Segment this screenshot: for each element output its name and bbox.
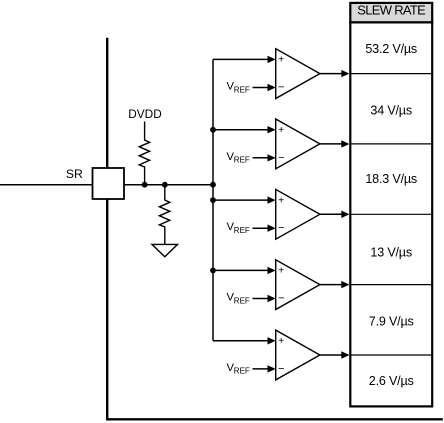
svg-text:REF: REF [234, 85, 250, 94]
wire: bus to + input of comparator U2 [213, 129, 269, 131]
svg-text:18.3 V/µs: 18.3 V/µs [365, 172, 417, 186]
table header SLEW RATE [350, 3, 432, 22]
wire: thick vertical line through SR pin [106, 38, 108, 421]
svg-text:−: − [278, 82, 284, 94]
op-amp comparator U3 [276, 189, 320, 239]
wire: bus to + input of comparator U1 [213, 58, 269, 60]
op-amp comparator U2 [276, 119, 320, 169]
svg-text:+: + [278, 336, 284, 347]
svg-text:REF: REF [234, 296, 250, 305]
ground [152, 244, 178, 256]
svg-text:−: − [278, 152, 284, 164]
table divider at slew threshold 3 [350, 213, 432, 215]
wire: comparator U2 output to table [320, 143, 343, 145]
svg-text:−: − [278, 363, 284, 375]
junction dot: bus branch to comparator U4 [210, 268, 216, 274]
wire: bus to + input of comparator U5 [213, 340, 269, 342]
svg-text:7.9 V/µs: 7.9 V/µs [369, 315, 414, 329]
wire: VREF to - input of comparator U5 [253, 368, 269, 370]
svg-text:−: − [278, 222, 284, 234]
wire: SR box to comparator bus [124, 184, 214, 186]
junction dot: R2 / SR wire [162, 182, 168, 188]
svg-text:REF: REF [234, 226, 250, 235]
wire: comparator U5 output to table [320, 354, 343, 356]
wire: SR input from left edge [0, 184, 93, 186]
wire: VREF to - input of comparator U1 [253, 87, 269, 89]
svg-text:+: + [278, 266, 284, 277]
svg-text:34 V/µs: 34 V/µs [370, 104, 412, 118]
svg-text:53.2 V/µs: 53.2 V/µs [365, 42, 417, 56]
svg-text:−: − [278, 293, 284, 305]
resistor R1 (from DVDD) [139, 122, 149, 185]
wire: comparator U3 output to table [320, 213, 343, 215]
table divider at slew threshold 5 [350, 354, 432, 356]
svg-text:+: + [278, 55, 284, 66]
wire: VREF to - input of comparator U4 [253, 298, 269, 300]
wire: vertical bus feeding comparator + inputs [212, 59, 214, 340]
wire: comparator U1 output to table [320, 73, 343, 75]
wire: bus to + input of comparator U3 [213, 199, 269, 201]
svg-text:SLEW RATE: SLEW RATE [357, 2, 426, 17]
table divider at slew threshold 1 [350, 73, 432, 75]
wire: VREF to - input of comparator U2 [253, 157, 269, 159]
op-amp comparator U4 [276, 260, 320, 310]
table divider at slew threshold 4 [350, 284, 432, 286]
junction dot: R1 / SR wire [142, 182, 148, 188]
table divider at slew threshold 2 [350, 143, 432, 145]
junction dot: bus / SR wire [210, 182, 216, 188]
resistor R2 (to ground) [159, 185, 169, 245]
svg-text:DVDD: DVDD [128, 107, 161, 121]
junction dot: bus branch to comparator U2 [210, 127, 216, 133]
svg-text:REF: REF [234, 367, 250, 376]
svg-text:+: + [278, 195, 284, 206]
wire: comparator U4 output to table [320, 284, 343, 286]
wire: VREF to - input of comparator U3 [253, 227, 269, 229]
op-amp comparator U5 [276, 330, 320, 380]
svg-text:+: + [278, 125, 284, 136]
wire: bus to + input of comparator U4 [213, 269, 269, 271]
table body (slew-rate rows) [350, 22, 432, 406]
svg-text:13 V/µs: 13 V/µs [370, 246, 412, 260]
op-amp comparator U1 [276, 49, 320, 99]
junction dot: bus branch to comparator U3 [210, 197, 216, 203]
svg-text:REF: REF [234, 156, 250, 165]
wire: thick bottom horizontal line [106, 418, 443, 420]
SR pin box [93, 168, 125, 199]
svg-text:SR: SR [66, 167, 83, 181]
svg-text:2.6 V/µs: 2.6 V/µs [369, 374, 414, 388]
